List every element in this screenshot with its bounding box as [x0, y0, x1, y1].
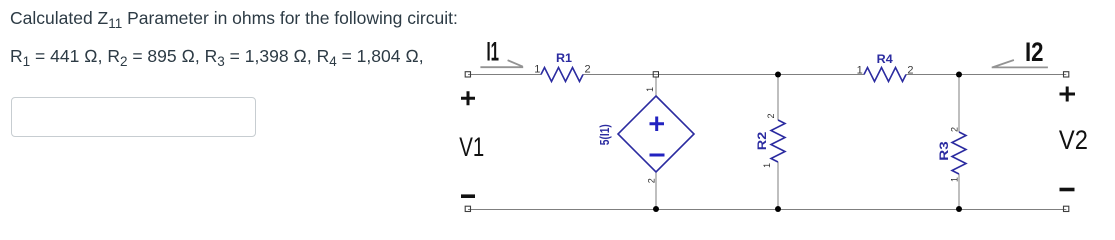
svg-text:2: 2 — [585, 64, 591, 76]
port terminal bottom-left — [465, 206, 470, 211]
minus inside source — [650, 154, 665, 157]
wire: R3 top lead — [958, 75, 960, 133]
svg-text:1: 1 — [857, 65, 863, 77]
wire: R3 bottom lead — [958, 174, 960, 209]
minus of port V1 — [461, 194, 475, 198]
resistor R4 — [864, 68, 906, 82]
wire top: R4 to right port — [906, 74, 1066, 76]
resistor R3 — [952, 132, 966, 174]
node dot R3 top — [956, 72, 962, 78]
svg-text:2: 2 — [766, 113, 776, 118]
svg-text:R2: R2 — [755, 131, 769, 150]
svg-text:2: 2 — [907, 65, 913, 77]
wire: source top lead — [655, 77, 657, 96]
current arrow I1 — [480, 60, 523, 67]
svg-text:I1: I1 — [487, 36, 500, 66]
plus of port V2 — [1060, 87, 1076, 102]
port terminal top-left — [465, 72, 470, 77]
question line 1 — [10, 8, 458, 29]
question line 2 — [10, 46, 424, 67]
plus of port V1 — [461, 91, 475, 105]
svg-text:1: 1 — [762, 163, 772, 168]
wire top: R1 to R4 — [583, 74, 864, 76]
current arrow I2 — [992, 60, 1048, 67]
wire top: left port to R1 — [468, 74, 541, 76]
answer input box — [11, 97, 256, 137]
plus inside source — [650, 117, 665, 132]
wire bottom rail — [468, 209, 1066, 211]
dependent source U1 diamond — [618, 96, 694, 172]
svg-text:5(I1): 5(I1) — [597, 124, 612, 145]
node dot source bottom — [653, 206, 659, 212]
svg-text:1: 1 — [534, 64, 540, 76]
port terminal bottom-right — [1064, 206, 1069, 211]
resistor R2 — [771, 120, 785, 162]
port terminal top-right — [1064, 72, 1069, 77]
svg-text:2: 2 — [646, 178, 656, 183]
node dot R2 bottom — [775, 206, 781, 212]
svg-text:V1: V1 — [459, 132, 484, 162]
svg-text:2: 2 — [949, 127, 959, 132]
wire: R2 bottom lead — [777, 162, 779, 209]
svg-text:I2: I2 — [1025, 37, 1044, 67]
svg-text:V2: V2 — [1059, 125, 1088, 155]
svg-text:R4: R4 — [877, 52, 893, 66]
source top terminal marker — [653, 72, 658, 77]
wire: source bottom lead — [655, 172, 657, 209]
wire: R2 top lead — [777, 75, 779, 121]
node dot R3 bottom — [956, 206, 962, 212]
svg-text:R3: R3 — [937, 141, 951, 161]
minus of port V2 — [1060, 188, 1075, 192]
svg-text:1: 1 — [645, 87, 655, 92]
svg-text:R1: R1 — [556, 51, 572, 65]
resistor R1 — [541, 68, 583, 82]
svg-text:1: 1 — [949, 177, 959, 182]
node dot R2 top — [775, 72, 781, 78]
